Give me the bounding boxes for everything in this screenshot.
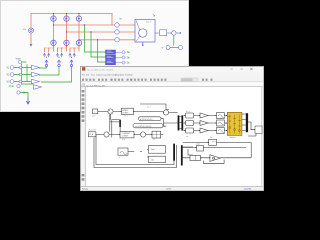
svg-text:TL_1: TL_1 [147,106,151,108]
svg-text:Vd: Vd [210,137,212,139]
svg-text:wref: wref [92,115,95,118]
svg-text:DM_M: DM_M [146,22,152,24]
svg-text:PI_1: PI_1 [125,116,128,118]
svg-text:Rectifier: Rectifier [230,136,236,139]
svg-text:CONTR: CONTR [122,135,129,137]
svg-text:CONTR: CONTR [122,112,129,114]
svg-text:w: w [119,157,121,159]
svg-text:Ready: Ready [82,188,88,190]
svg-text:Db: Db [127,56,131,59]
svg-text:Dc: Dc [127,62,131,65]
svg-text:Ia: Ia [120,18,123,21]
svg-text:SV: SV [153,139,155,141]
svg-text:Display: Display [96,75,102,77]
svg-text:100%: 100% [166,188,171,190]
svg-text:Vcar: Vcar [9,85,14,88]
svg-text:pulses: pulses [212,141,217,143]
svg-text:Vma: Vma [16,58,22,61]
svg-text:scope: scope [196,144,200,146]
svg-text:Edit: Edit [86,74,90,77]
svg-text:View: View [91,75,96,77]
svg-text:eje_d_b_SIM_CC_MT - Simulink: eje_d_b_SIM_CC_MT - Simulink [87,69,113,71]
svg-text:Vabc: Vabc [151,149,155,151]
svg-text:V3: V3 [7,80,11,83]
svg-text:Help: Help [129,75,133,77]
svg-text:Ta: Ta [153,15,156,18]
svg-text:eje_d_b_SIM_CC_MT: eje_d_b_SIM_CC_MT [86,85,106,87]
svg-text:w: w [162,47,164,50]
svg-text:PI_d 227m: PI_d 227m [89,130,97,132]
svg-text:V2: V2 [7,73,11,76]
svg-text:ode23tb: ode23tb [244,187,252,190]
svg-text:Gb: Gb [23,92,27,95]
svg-text:V1: V1 [7,66,11,69]
svg-text:PI_q: PI_q [122,139,125,141]
svg-text:400: 400 [23,29,27,31]
svg-text:File: File [82,75,85,77]
svg-text:Iabc: Iabc [151,159,154,161]
svg-text:Da: Da [127,51,131,54]
svg-text:lim_a: lim_a [186,111,190,113]
svg-text:1: 1 [94,112,95,114]
svg-text:rad: rad [186,135,188,138]
